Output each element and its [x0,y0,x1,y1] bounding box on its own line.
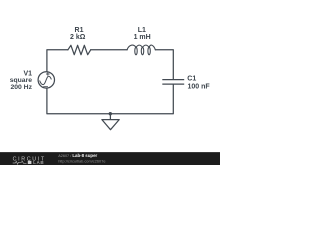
svg-text:200 Hz: 200 Hz [10,84,32,91]
svg-text:LAB: LAB [33,160,44,165]
svg-text:http://circuitlab.com/c2607e: http://circuitlab.com/c2607e [58,158,105,163]
svg-text:2 kΩ: 2 kΩ [70,34,86,41]
svg-text:100 nF: 100 nF [188,84,211,91]
svg-text:1 mH: 1 mH [134,34,151,41]
svg-text:C1: C1 [187,75,196,82]
svg-text:A2607 / Lab-8 super: A2607 / Lab-8 super [58,153,97,158]
